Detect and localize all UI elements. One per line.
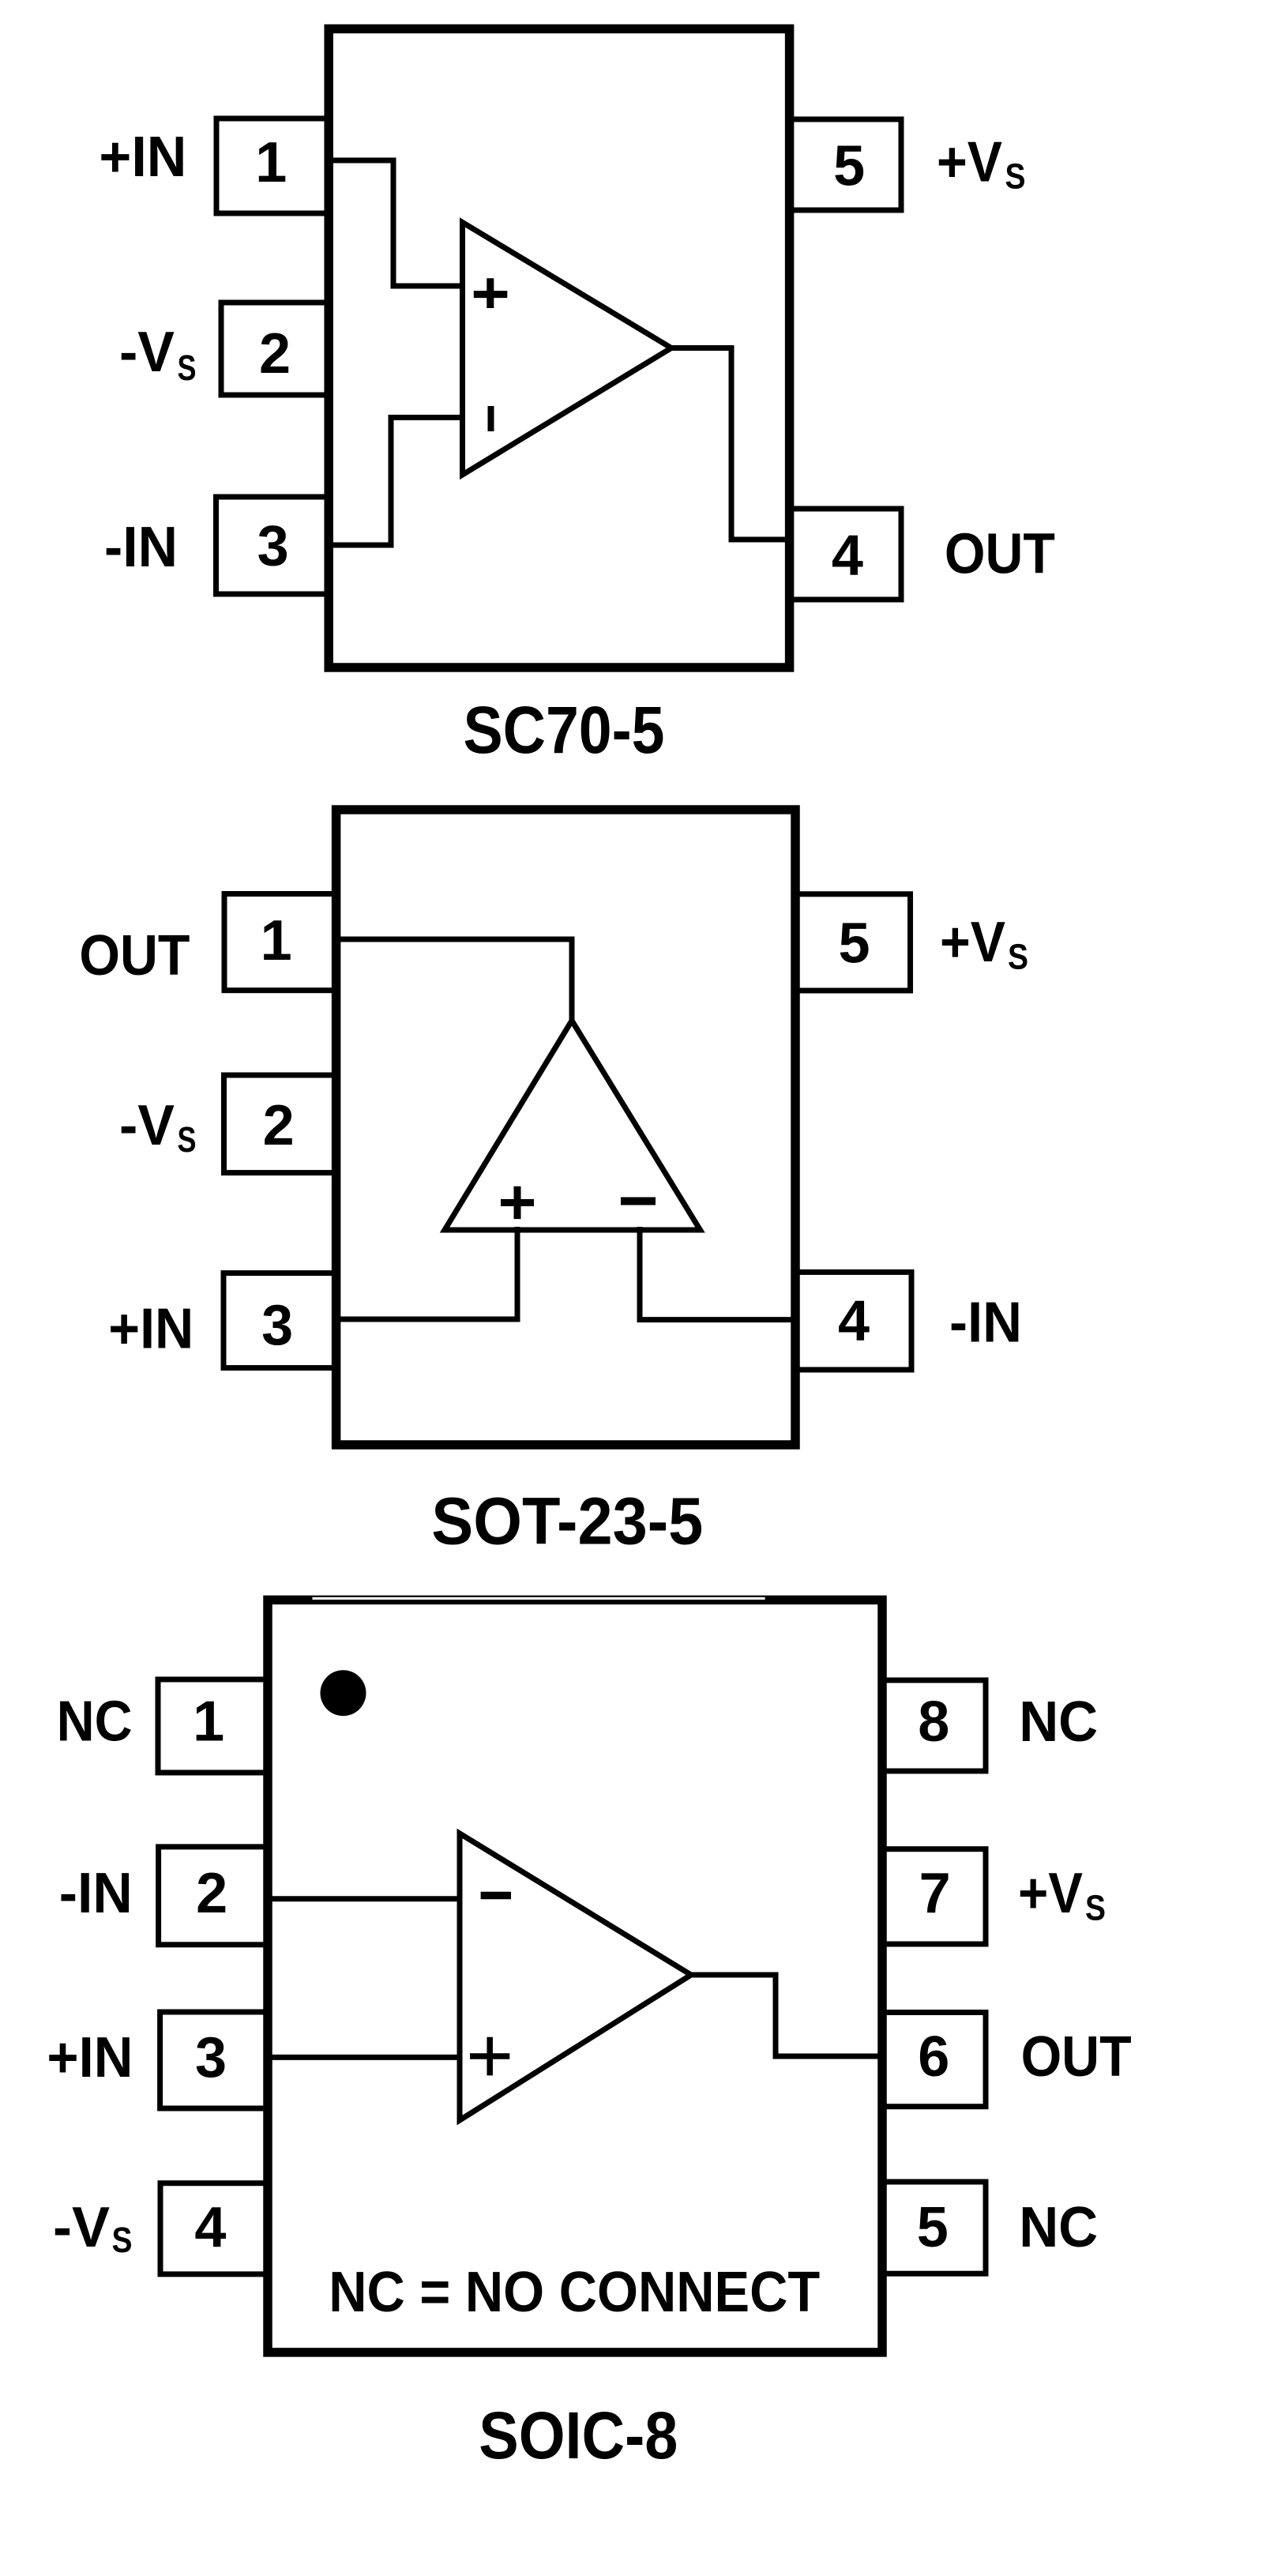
pin 4 box (SOIC-8) [160,2183,268,2274]
op-amp A3 triangle [460,1833,691,2120]
op-amp A2 triangle (pointing up) [445,1021,701,1230]
svg-text:-IN: -IN [104,516,178,579]
pin 1 box (SOIC-8) [158,1679,268,1773]
svg-text:S: S [178,348,197,388]
pin 1 box (SC70-5) [216,118,329,213]
wire pin3 to +input [333,1227,517,1319]
svg-text:+IN: +IN [47,2026,133,2089]
op-amp A2 plus input mark [501,1186,534,1219]
svg-text:+V: +V [1018,1862,1083,1925]
svg-text:-V: -V [119,321,175,384]
pin 1 box (SOT-23-5) [224,894,336,991]
svg-text:5: 5 [838,912,870,975]
pin 1 orientation dot [321,1670,366,1716]
pin 4 box (SC70-5) [790,509,901,600]
svg-text:2: 2 [263,1094,295,1157]
body top edge white slit [313,1597,765,1600]
pin 5 box (SC70-5) [790,119,901,210]
op-amp A3 plus input mark [470,2037,509,2076]
svg-text:-IN: -IN [59,1862,133,1925]
svg-text:OUT: OUT [1021,2025,1132,2089]
pin 7 box (SOIC-8) [882,1849,986,1944]
pin 3 box (SOT-23-5) [224,1273,336,1368]
svg-text:2: 2 [196,1862,227,1925]
pin 3 box (SC70-5) [216,497,329,594]
svg-text:7: 7 [919,1862,951,1925]
svg-text:NC = NO CONNECT: NC = NO CONNECT [329,2261,820,2324]
svg-text:SC70-5: SC70-5 [464,693,665,767]
package body SOT-23-5 [336,810,795,1445]
svg-text:+IN: +IN [99,126,186,189]
pin 5 box (SOIC-8) [882,2182,986,2273]
svg-text:OUT: OUT [945,523,1055,586]
svg-text:OUT: OUT [79,924,190,987]
package body SC70-5 [329,29,789,668]
pin 5 box (SOT-23-5) [795,894,911,991]
svg-text:NC: NC [1019,1690,1098,1754]
svg-text:S: S [1008,937,1028,977]
svg-text:NC: NC [57,1690,133,1754]
svg-text:S: S [112,2220,133,2260]
pin 3 box (SOIC-8) [160,2012,268,2108]
svg-text:S: S [1085,1888,1106,1928]
pin 4 box (SOT-23-5) [795,1272,911,1370]
svg-text:8: 8 [918,1690,949,1754]
wire pin1 to output (apex) [333,939,572,1024]
op-amp A1 triangle [463,223,672,476]
svg-text:NC: NC [1019,2196,1098,2259]
svg-text:3: 3 [195,2026,227,2089]
svg-text:+IN: +IN [108,1298,194,1361]
svg-text:+V: +V [940,911,1005,974]
wire pin1 to +input [326,160,462,286]
svg-text:1: 1 [261,909,292,972]
pin 2 box (SC70-5) [221,303,329,395]
svg-text:4: 4 [838,1289,870,1352]
svg-text:5: 5 [917,2196,949,2259]
svg-text:1: 1 [193,1690,224,1754]
wire op-amp output to pin4 [668,348,792,540]
op-amp A3 minus input mark [481,1892,511,1900]
svg-text:5: 5 [833,134,865,197]
pin 6 box (SOIC-8) [882,2013,986,2107]
svg-text:4: 4 [194,2196,226,2259]
svg-text:-V: -V [53,2196,110,2259]
wire pin3 to +input [265,2055,460,2060]
wire op-amp output to pin6 [688,1975,885,2056]
op-amp A2 minus input mark [621,1198,656,1205]
svg-text:S: S [1005,156,1026,196]
pin 2 box (SOT-23-5) [224,1075,336,1173]
svg-text:4: 4 [832,524,863,587]
op-amp A1 minus input mark [488,406,494,431]
pin 2 box (SOIC-8) [159,1847,268,1945]
svg-text:-IN: -IN [949,1291,1022,1354]
svg-text:3: 3 [257,515,289,578]
svg-text:2: 2 [259,322,291,385]
package body SOIC-8 [268,1600,882,2352]
wire pin4 to -input [640,1227,798,1320]
wire pin2 to -input [265,1896,460,1901]
svg-text:6: 6 [918,2025,949,2089]
svg-text:S: S [178,1119,197,1160]
svg-text:1: 1 [255,131,287,194]
wire pin3 to -input [326,418,462,546]
svg-text:+V: +V [937,130,1002,194]
svg-text:-V: -V [119,1094,175,1157]
svg-text:3: 3 [261,1294,293,1357]
svg-text:SOT-23-5: SOT-23-5 [431,1484,703,1559]
svg-text:SOIC-8: SOIC-8 [479,2398,678,2473]
op-amp A1 plus input mark [474,278,508,308]
pin 8 box (SOIC-8) [882,1680,986,1771]
